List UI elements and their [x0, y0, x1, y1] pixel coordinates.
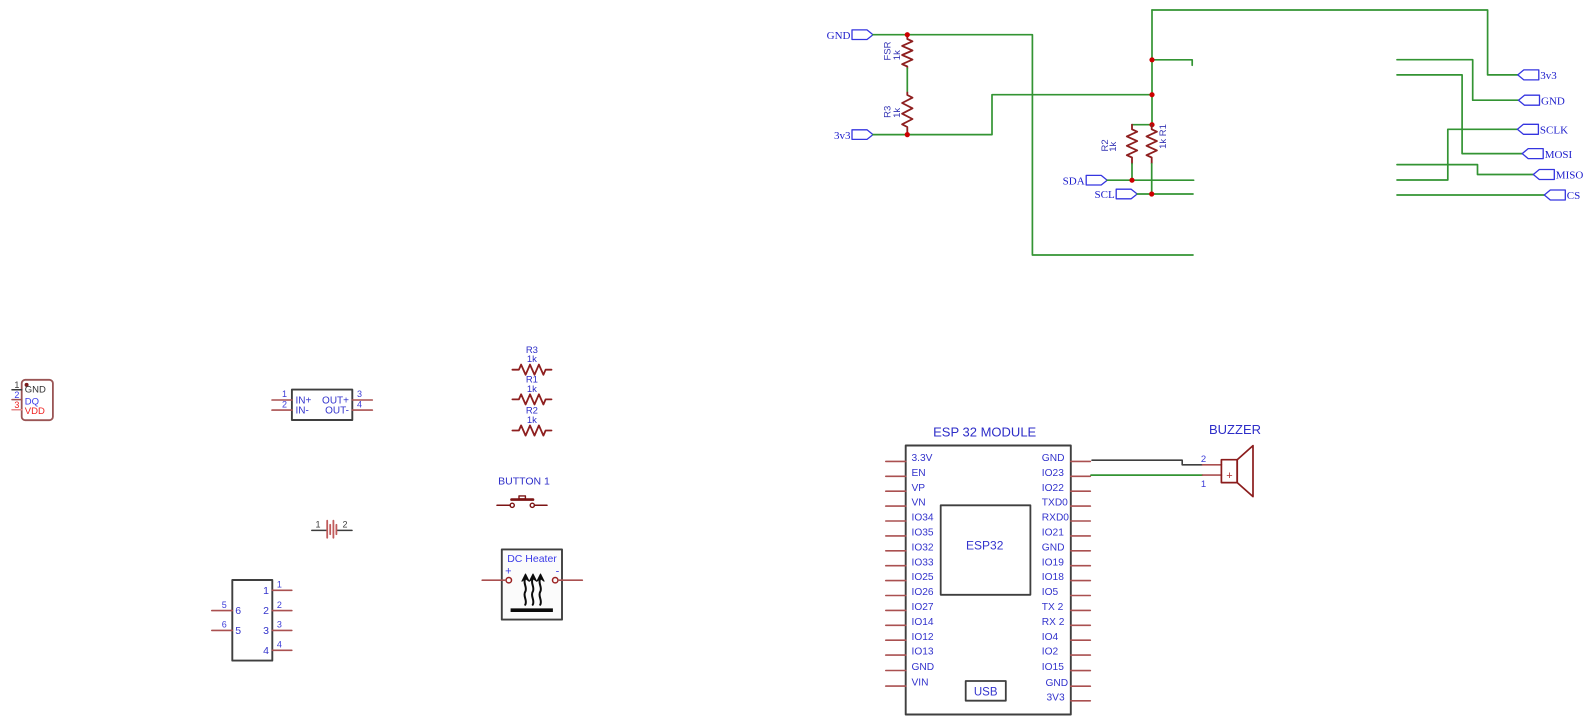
svg-text:IO25: IO25 [912, 572, 934, 583]
wire to SCLK flag [1397, 129, 1517, 180]
svg-text:2: 2 [342, 520, 347, 530]
ESP32 module body [906, 446, 1071, 715]
svg-text:IO18: IO18 [1042, 572, 1064, 583]
ESP32 pin IO33 (left) [886, 557, 934, 568]
pin 4 OUT- [325, 399, 372, 416]
wire R1 bottom to SCL [1151, 164, 1153, 194]
svg-text:1k: 1k [892, 50, 903, 60]
svg-text:+: + [1226, 470, 1232, 482]
svg-text:IO14: IO14 [912, 617, 934, 628]
heater base bar [511, 608, 553, 612]
flag SDA [1063, 175, 1108, 187]
pin 3 OUT+ [322, 389, 372, 406]
wire SDA [1107, 179, 1193, 181]
svg-text:IO32: IO32 [912, 542, 934, 553]
resistor R3 (spare, horizontal) [512, 345, 551, 375]
svg-text:5: 5 [235, 625, 241, 637]
svg-text:IO13: IO13 [912, 647, 934, 658]
ESP32 pin VP (left) [886, 483, 925, 494]
ESP32 pin IO34 (left) [886, 513, 934, 524]
ESP32 pin IO12 (left) [886, 632, 934, 643]
resistor R3 (vertical) [882, 93, 912, 135]
svg-text:GND: GND [912, 662, 935, 673]
svg-text:3: 3 [357, 389, 362, 399]
svg-text:1k: 1k [1108, 142, 1119, 152]
ESP32 pin IO23 (right) [1042, 468, 1091, 479]
switch BUTTON 1 [497, 476, 550, 508]
svg-text:GND: GND [1046, 678, 1069, 689]
svg-text:GND: GND [1042, 542, 1065, 553]
svg-text:CS: CS [1567, 190, 1580, 202]
svg-text:IO15: IO15 [1042, 662, 1064, 673]
junction at R3 bottom [905, 132, 910, 137]
heater terminal - [553, 578, 558, 583]
ESP32 inner chip box [941, 505, 1031, 595]
USB box [966, 681, 1006, 701]
ESP32 pin IO21 (right) [1042, 528, 1091, 539]
svg-text:OUT-: OUT- [325, 406, 349, 417]
ESP32 pin IO14 (left) [886, 617, 934, 628]
wire to CS flag [1397, 194, 1544, 196]
ESP32 pin TXD0 (right) [1042, 498, 1091, 509]
ESP32 pin IO18 (right) [1042, 572, 1091, 583]
junction R1 top [1149, 122, 1154, 127]
svg-text:6: 6 [235, 605, 241, 617]
svg-text:MOSI: MOSI [1545, 149, 1573, 161]
svg-text:3v3: 3v3 [834, 130, 851, 142]
svg-text:IO21: IO21 [1042, 528, 1064, 539]
pin 1 (right) [263, 580, 292, 597]
resistor R1 (spare, horizontal) [512, 375, 551, 405]
resistor R2 (spare, horizontal) [512, 406, 551, 436]
svg-text:IO2: IO2 [1042, 647, 1059, 658]
flag SCLK (right side) [1517, 124, 1568, 136]
ESP32 pin IO19 (right) [1042, 557, 1091, 568]
svg-text:VIN: VIN [912, 678, 929, 689]
svg-text:BUTTON 1: BUTTON 1 [498, 476, 550, 488]
wire to GND flag (right) [1397, 60, 1519, 100]
wire 3v3 net [873, 95, 1152, 135]
junction SDA/R2 [1129, 178, 1134, 183]
svg-text:ESP 32 MODULE: ESP 32 MODULE [933, 424, 1036, 439]
svg-text:VN: VN [912, 498, 926, 509]
ESP32 pin 3.3V (left) [886, 453, 933, 464]
svg-text:4: 4 [263, 645, 269, 657]
svg-text:MISO: MISO [1556, 170, 1584, 182]
svg-text:IO33: IO33 [912, 557, 934, 568]
pin 1 IN+ [272, 389, 312, 406]
resistor FSR [882, 35, 912, 68]
connector J? 6-pin box [232, 580, 272, 661]
ESP32 pin GND (right) [1042, 542, 1091, 553]
ESP32 pin VIN (left bottom) [886, 678, 929, 689]
heater DC Heater body [502, 549, 562, 619]
heat waves [522, 574, 544, 605]
svg-text:+: + [505, 566, 511, 578]
ESP32 pin TX 2 (right) [1042, 602, 1091, 613]
wire R2 top connect [1132, 124, 1152, 126]
svg-text:SCLK: SCLK [1540, 125, 1568, 137]
svg-text:GND: GND [1042, 453, 1065, 464]
svg-text:TX 2: TX 2 [1042, 602, 1064, 613]
svg-text:1k: 1k [892, 108, 903, 118]
svg-text:2: 2 [263, 605, 269, 617]
svg-text:1: 1 [14, 380, 19, 390]
svg-text:IO22: IO22 [1042, 483, 1064, 494]
ESP32 pin IO32 (left) [886, 542, 934, 553]
svg-text:EN: EN [912, 468, 926, 479]
wire IO23 to buzzer pin1 (green) [1091, 474, 1203, 476]
svg-text:SCL: SCL [1095, 189, 1115, 201]
svg-text:IN-: IN- [296, 406, 309, 417]
svg-text:1k R1: 1k R1 [1158, 124, 1169, 149]
svg-text:IO23: IO23 [1042, 468, 1064, 479]
flag CS (right side) [1544, 190, 1580, 202]
wire between FSR and R3 [906, 68, 908, 92]
svg-text:1: 1 [263, 585, 269, 597]
pin 3 VDD [12, 400, 22, 410]
flag GND (left) [827, 30, 873, 42]
resistor R2 (vertical) [1100, 125, 1137, 164]
svg-text:IO19: IO19 [1042, 557, 1064, 568]
junction at FSR top [905, 32, 910, 37]
heater terminal + [506, 578, 511, 583]
ESP32 pin IO13 (left) [886, 647, 934, 658]
ESP32 pin VN (left) [886, 498, 926, 509]
svg-text:RX 2: RX 2 [1042, 617, 1065, 628]
wire GND to buzzer pin2 (black) [1092, 460, 1203, 465]
ESP32 pin EN (left) [886, 468, 926, 479]
svg-text:TXD0: TXD0 [1042, 498, 1068, 509]
svg-text:3V3: 3V3 [1047, 692, 1065, 703]
flag SCL [1095, 189, 1138, 201]
svg-text:IO35: IO35 [912, 528, 934, 539]
buzzer pin 1 [1201, 475, 1222, 490]
svg-text:1k: 1k [527, 354, 537, 365]
sensor U? DS18B20 body [22, 380, 53, 420]
junction y95 [1149, 92, 1154, 97]
svg-text:IO5: IO5 [1042, 587, 1059, 598]
ESP32 pin IO15 (right bottom) [1042, 662, 1091, 673]
junction y60 [1149, 57, 1154, 62]
svg-text:3: 3 [263, 625, 269, 637]
svg-text:IO34: IO34 [912, 513, 934, 524]
svg-text:1k: 1k [527, 384, 537, 395]
svg-text:IO26: IO26 [912, 587, 934, 598]
ESP32 pin GND (left bottom) [886, 662, 934, 673]
svg-text:2: 2 [282, 399, 287, 409]
heater lead left [482, 579, 506, 581]
svg-text:4: 4 [357, 399, 362, 409]
pin 4 (right) [263, 640, 292, 657]
svg-text:DC Heater: DC Heater [507, 553, 557, 565]
wire to MOSI flag [1397, 75, 1522, 154]
ESP32 pin IO2 (right) [1042, 647, 1091, 658]
flag GND (right side) [1519, 95, 1565, 107]
pin 2 (right) [263, 600, 292, 617]
ESP32 pin IO22 (right) [1042, 483, 1091, 494]
ESP32 pin 3V3 (right bottom) [1047, 692, 1091, 703]
flag MOSI (right side) [1522, 149, 1572, 161]
svg-text:1: 1 [277, 580, 282, 590]
svg-text:1: 1 [315, 520, 320, 530]
wire stub at y60 [1152, 60, 1192, 66]
ESP32 pin IO27 (left) [886, 602, 934, 613]
svg-text:-: - [556, 566, 560, 578]
ESP32 pin IO5 (right) [1042, 587, 1091, 598]
svg-text:3: 3 [14, 400, 19, 410]
pin 5 (left) [212, 600, 242, 617]
wire to MISO flag [1397, 165, 1533, 175]
svg-text:GND: GND [827, 30, 851, 42]
svg-text:2: 2 [1201, 454, 1206, 465]
svg-text:GND: GND [25, 385, 46, 396]
pin 2 DQ [12, 390, 22, 400]
flag 3v3 (left) [834, 130, 873, 142]
flag 3v3 (right side) [1518, 70, 1558, 82]
buzzer LS1 body [1221, 446, 1253, 497]
svg-text:BUZZER: BUZZER [1209, 422, 1261, 437]
svg-text:USB: USB [974, 686, 998, 698]
svg-text:GND: GND [1541, 95, 1565, 107]
svg-text:IO12: IO12 [912, 632, 934, 643]
wire top horizontal to right [1152, 10, 1518, 75]
pin 2 IN- [272, 399, 309, 416]
flag MISO (right side) [1533, 170, 1583, 182]
ESP32 pin IO25 (left) [886, 572, 934, 583]
ESP32 pin IO4 (right) [1042, 632, 1091, 643]
ESP32 pin IO35 (left) [886, 528, 934, 539]
svg-text:3v3: 3v3 [1540, 70, 1557, 82]
svg-text:IO27: IO27 [912, 602, 934, 613]
ESP32 pin RXD0 (right) [1042, 513, 1091, 524]
ESP32 pin GND (right bottom) [1046, 678, 1091, 689]
svg-text:VP: VP [912, 483, 926, 494]
resistor R1 (vertical) [1147, 124, 1170, 164]
buzzer pin 2 [1201, 454, 1222, 465]
heater lead right [558, 579, 582, 581]
svg-text:5: 5 [222, 600, 227, 610]
svg-text:2: 2 [14, 390, 19, 400]
battery BT1 [312, 520, 352, 538]
svg-text:6: 6 [222, 620, 227, 630]
svg-text:1: 1 [1201, 479, 1206, 490]
wire R2 bottom to SDA [1131, 164, 1133, 181]
ESP32 pin IO26 (left) [886, 587, 934, 598]
wire SCL [1137, 193, 1193, 195]
svg-text:RXD0: RXD0 [1042, 513, 1070, 524]
wire main vertical [1151, 10, 1153, 125]
svg-text:1: 1 [282, 389, 287, 399]
svg-text:SDA: SDA [1063, 175, 1085, 187]
svg-text:3.3V: 3.3V [912, 453, 933, 464]
pin 1 GND [12, 380, 22, 390]
svg-text:2: 2 [277, 600, 282, 610]
ESP32 pin RX 2 (right) [1042, 617, 1091, 628]
svg-text:1k: 1k [527, 415, 537, 426]
junction SCL/R1 [1149, 191, 1154, 196]
svg-text:ESP32: ESP32 [966, 539, 1004, 553]
svg-text:3: 3 [277, 620, 282, 630]
pin 3 (right) [263, 620, 292, 637]
svg-text:4: 4 [277, 640, 282, 650]
wire GND net top [873, 35, 1193, 255]
svg-text:VDD: VDD [25, 406, 45, 417]
pin 6 (left) [212, 620, 242, 637]
svg-text:IO4: IO4 [1042, 632, 1059, 643]
amplifier U? box [292, 390, 352, 420]
ESP32 pin GND (right) [1042, 453, 1091, 464]
